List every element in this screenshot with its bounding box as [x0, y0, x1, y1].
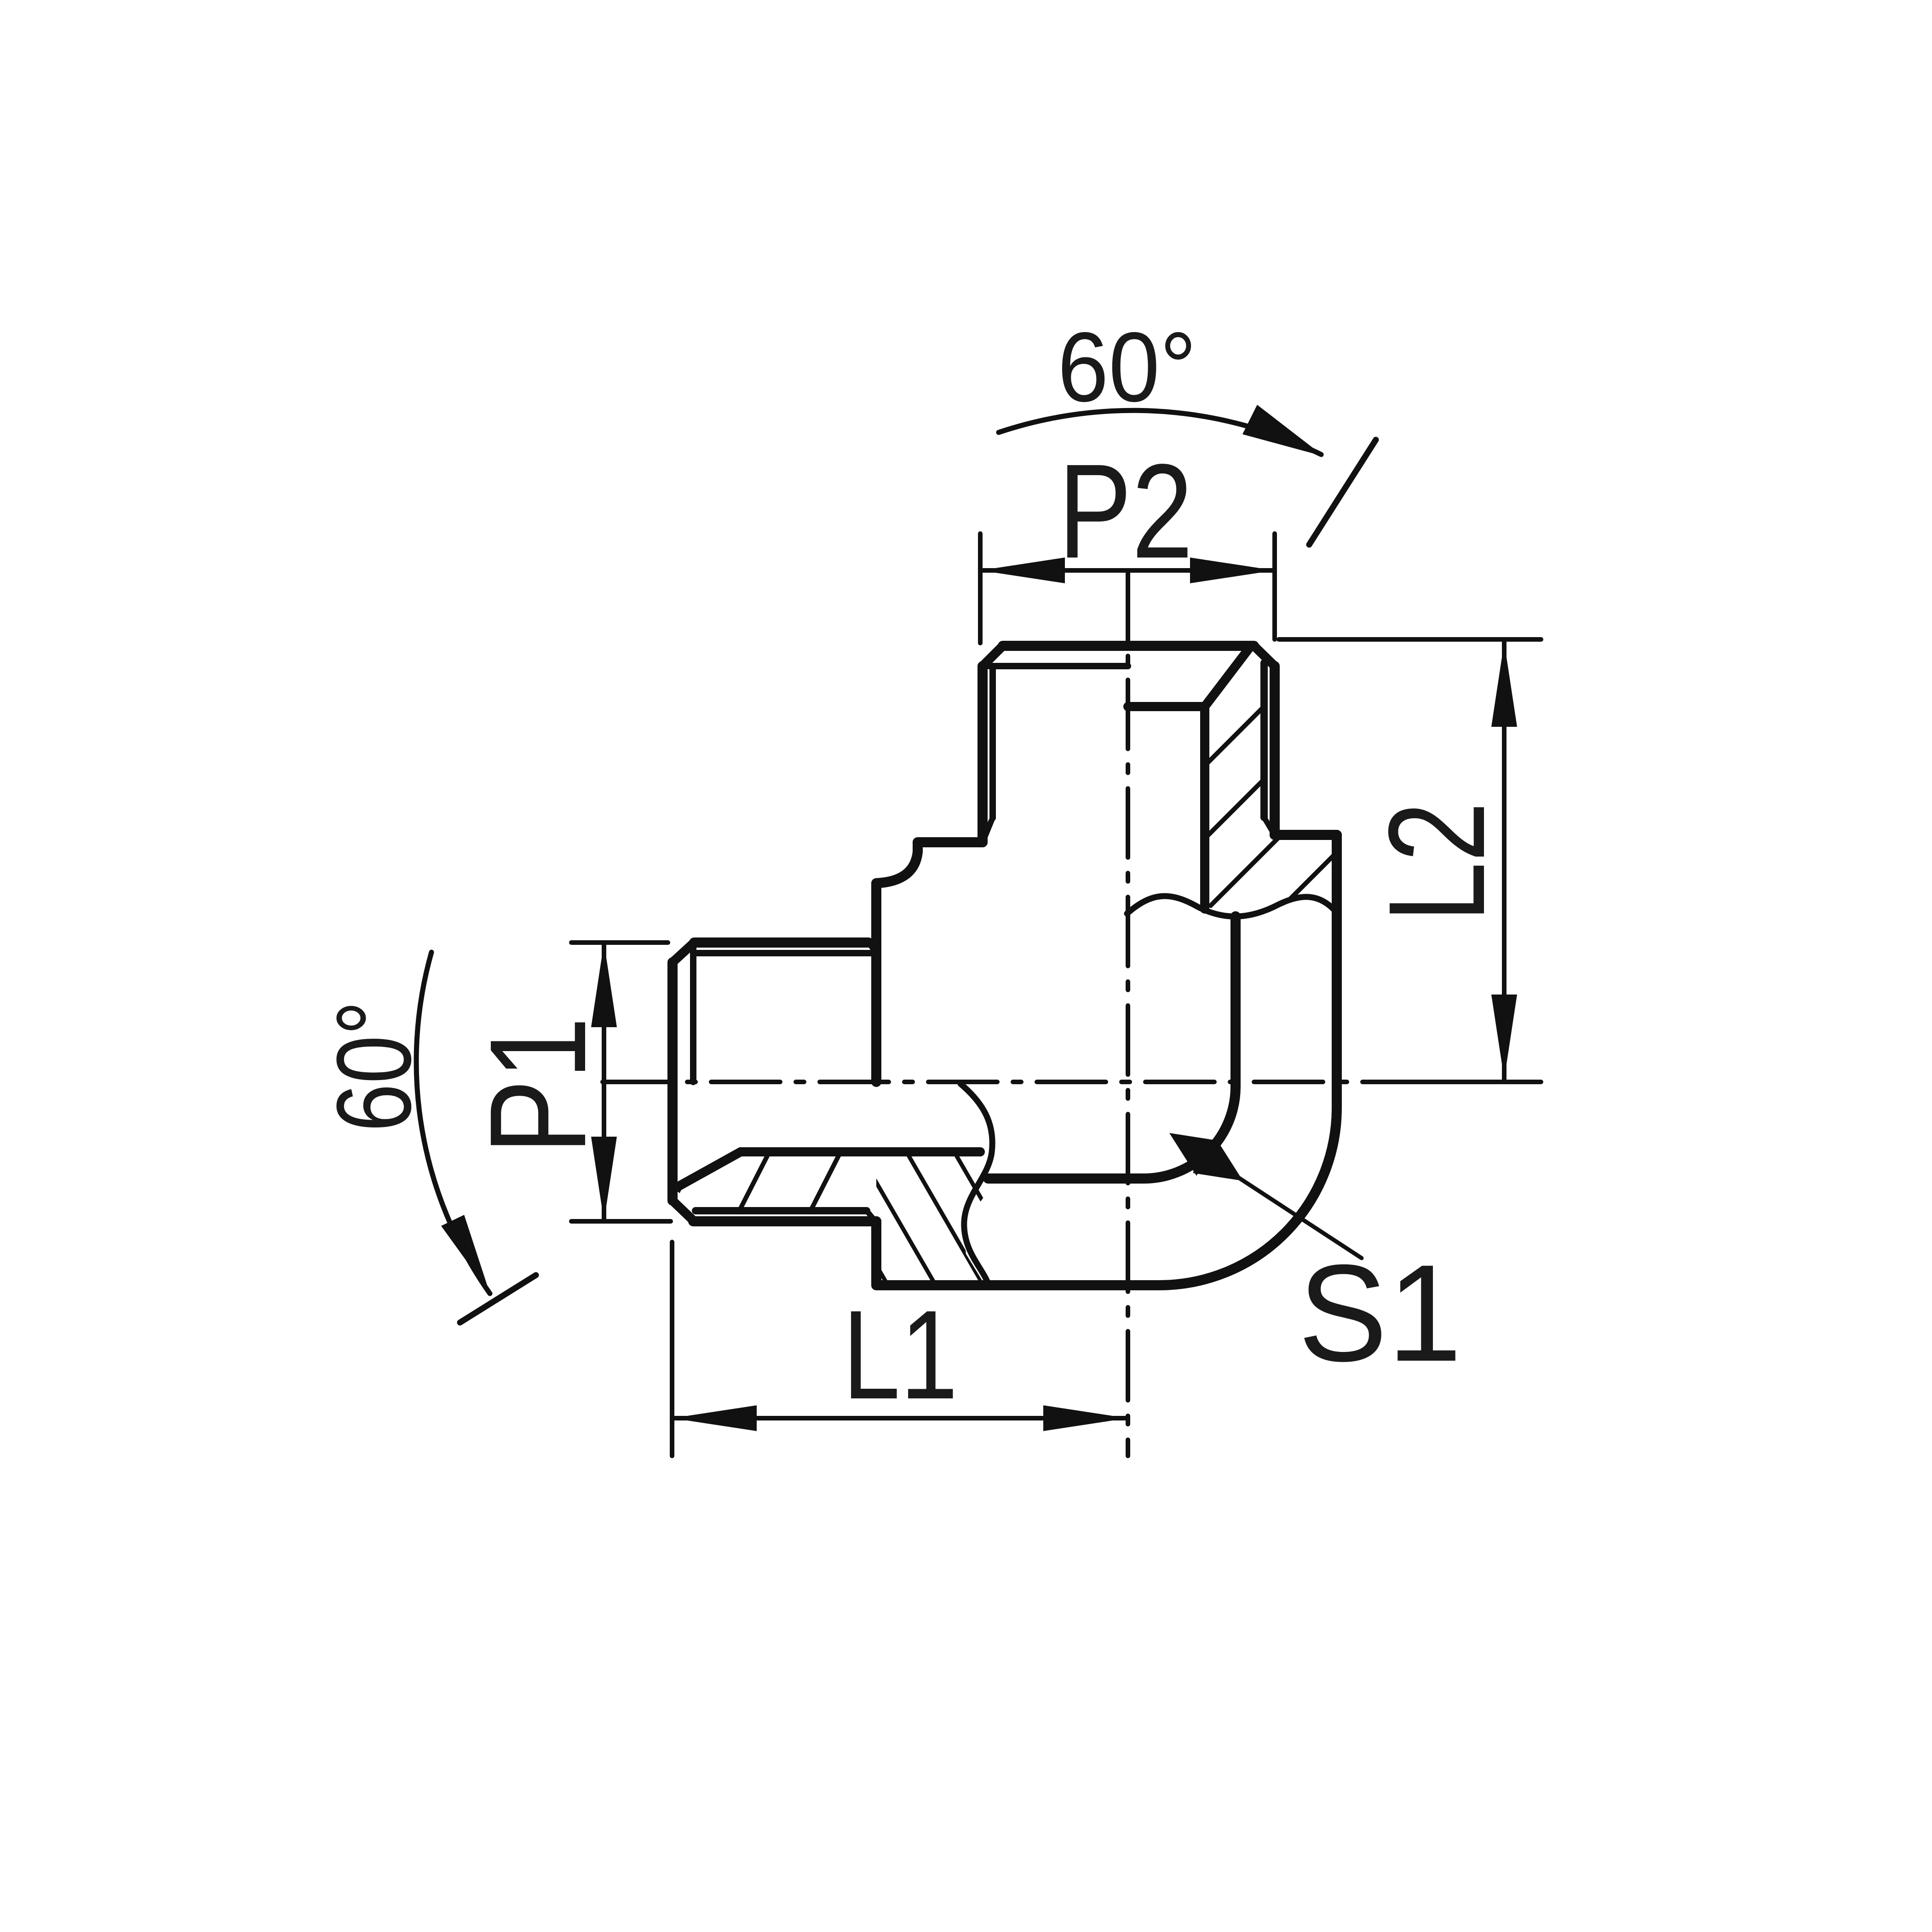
svg-text:P2: P2	[1058, 436, 1193, 586]
L1 arrow right	[1043, 1405, 1128, 1431]
svg-text:S1: S1	[1298, 1236, 1462, 1390]
S1 leader arrowhead mirror	[1193, 1138, 1243, 1181]
dimension L2 extension top	[1279, 637, 1541, 642]
centerline vertical top port axis	[1126, 571, 1130, 1456]
body bottom face	[876, 1280, 1159, 1290]
L1 dimension line	[672, 1416, 1128, 1420]
P2 arrow right	[1190, 558, 1275, 583]
svg-text:60°: 60°	[1058, 311, 1196, 422]
P1 arrow bottom	[591, 1137, 617, 1221]
left port thread minor bottom	[696, 1207, 867, 1214]
top port chamfer edge line	[989, 663, 1128, 669]
60 deg left arc arrowhead	[441, 1215, 490, 1294]
label L2 (rotated)	[1360, 802, 1513, 922]
dimension P1 extension top	[571, 940, 668, 945]
60 deg arc top	[999, 410, 1321, 454]
svg-text:L1: L1	[843, 1284, 958, 1426]
left port thread runout bottom	[867, 1211, 875, 1221]
P2 dimension line	[980, 568, 1275, 573]
body inner horizontal edge	[988, 1173, 1144, 1184]
left port thread major bottom	[693, 1216, 876, 1226]
hatch area left port section band	[675, 1152, 876, 1211]
body step top left	[918, 837, 983, 847]
dimension L1 extension left	[670, 1242, 674, 1456]
left port bore line	[741, 1147, 980, 1156]
svg-text:P1: P1	[461, 1017, 615, 1155]
60 deg top arc arrowhead	[1242, 405, 1324, 456]
hatch area body break-out below left port	[876, 1152, 987, 1286]
P2 extension line left	[978, 534, 983, 643]
P2 arrow left	[980, 558, 1065, 583]
body inner corner arc	[1144, 1087, 1236, 1179]
dimension L2 extension bottom	[1375, 1080, 1541, 1084]
hatch area top port section right half	[1205, 646, 1337, 916]
centerline horizontal left port axis	[603, 1080, 1375, 1084]
P1 arrow top	[591, 943, 617, 1027]
top port countersink cone	[1205, 647, 1250, 707]
body break-out wave top port	[1127, 896, 1337, 916]
dimension P1 extension bottom	[571, 1219, 671, 1224]
body wrench relief groove	[876, 842, 918, 1082]
L2 arrow top	[1491, 642, 1517, 727]
body hex flange top face right	[1275, 830, 1337, 840]
top port thread major right edge	[1270, 666, 1280, 835]
top port thread major left edge and body left face	[977, 666, 988, 842]
top port tip chamfer right	[1254, 646, 1275, 666]
label S1	[1298, 1236, 1462, 1390]
label 60 deg left (rotated)	[315, 1000, 433, 1132]
top port thread minor right line	[1260, 663, 1268, 817]
left port thread major top	[694, 937, 868, 948]
body outer corner arc	[1159, 1108, 1337, 1285]
body break-out wave left port	[960, 1084, 992, 1286]
left port chamfer edge line	[690, 944, 696, 1082]
label 60 deg top	[1058, 311, 1196, 422]
body right face	[1332, 835, 1342, 1108]
body inner vertical edge	[1230, 916, 1241, 1087]
60 deg arc left	[416, 952, 490, 1294]
L2 dimension line	[1502, 642, 1506, 1079]
L1 arrow left	[672, 1405, 757, 1431]
left port thread runout top	[868, 943, 876, 953]
top port tip face	[1003, 641, 1254, 651]
60 deg slash top	[1309, 440, 1376, 545]
top port thread runout right	[1264, 817, 1274, 834]
svg-text:L2: L2	[1360, 802, 1513, 922]
body hex chamfer diagonal	[983, 818, 993, 839]
left port tip chamfer top	[673, 943, 694, 962]
S1 leader arrowhead	[1169, 1133, 1219, 1176]
left port countersink cone	[674, 1152, 741, 1189]
top port bore shoulder line	[1128, 702, 1205, 711]
body left hex face lower	[871, 1221, 881, 1285]
label P1 (rotated)	[461, 1017, 615, 1155]
P2 extension line right	[1272, 534, 1277, 639]
L2 arrow bottom	[1491, 995, 1517, 1079]
top port thread minor left line	[989, 668, 996, 818]
label P2	[1058, 436, 1193, 586]
left port tip chamfer bottom	[673, 1201, 694, 1221]
top port tip chamfer left	[983, 646, 1003, 666]
top port thread runout left	[984, 818, 993, 838]
S1 leader line	[1205, 1156, 1362, 1258]
svg-text:60°: 60°	[315, 1000, 433, 1132]
left port thread minor top	[696, 950, 876, 956]
top port bore right wall	[1200, 707, 1209, 909]
label L1	[843, 1284, 958, 1426]
left port tip face	[667, 962, 678, 1201]
P1 dimension line	[602, 943, 606, 1221]
60 deg slash left	[460, 1275, 536, 1322]
